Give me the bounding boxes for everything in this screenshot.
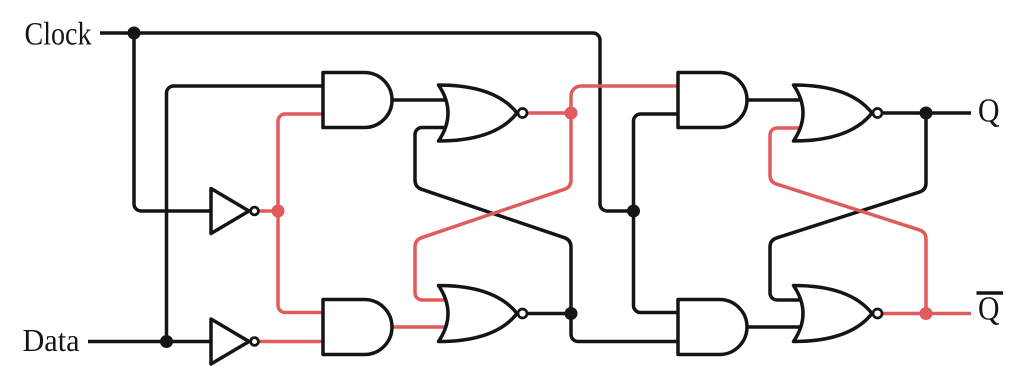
- wire A3 output to NOR G3 top input: [747, 98, 803, 102]
- wire CK node up to gate A3 bottom input: [634, 114, 683, 211]
- NOR gate G2 bubble: [518, 309, 527, 318]
- inverter U2: [211, 319, 249, 364]
- wire Clock rail: label to corner, down to CK node: [100, 33, 634, 211]
- NOR gate G4 bubble: [873, 309, 882, 318]
- junction: N2 node (G1 output): [565, 107, 578, 120]
- NOR gate G4 body: [794, 286, 873, 342]
- wire node Qbar to output Qbar: [926, 312, 971, 316]
- junction: CK node: [627, 205, 640, 218]
- inverter U1 bubble: [251, 207, 259, 215]
- wire U1 output to node N1: [255, 209, 279, 213]
- svg-text:Q: Q: [978, 291, 1000, 328]
- wire G2 output cross-coupling to G1 bottom input: [415, 128, 571, 314]
- wire G3 output to node Q: [882, 111, 926, 115]
- AND gate A3: [678, 73, 747, 128]
- wire U2 output to gate A2 bottom input: [255, 340, 328, 344]
- wire G4 output to node Qbar: [882, 312, 926, 316]
- inverter U2 bubble: [251, 338, 259, 346]
- wire G1 output to node N2: [528, 111, 571, 115]
- wire Data up-branch to gate A1 top input: [167, 86, 328, 342]
- AND gate A2: [323, 300, 392, 355]
- AND gate A4: [678, 300, 747, 355]
- wire node N1 down to gate A2 top input: [278, 211, 327, 313]
- NOR gate G3 bubble: [873, 109, 882, 118]
- junction: Data node: [160, 335, 173, 348]
- wire A1 output to NOR G1 top input: [391, 98, 448, 102]
- AND gate A1: [323, 73, 392, 128]
- junction: Clock node: [128, 27, 141, 40]
- NOR gate G3 body: [794, 85, 873, 141]
- junction: Q node: [920, 107, 933, 120]
- wire node N2 up to gate A3 top input: [571, 86, 682, 113]
- NOR gate G1 bubble: [518, 109, 527, 118]
- wire Clock down-branch to inverter U1 input: [134, 33, 215, 211]
- wire node N1 up to gate A1 bottom input: [278, 114, 327, 211]
- junction: G2 output node: [565, 307, 578, 320]
- svg-text:Data: Data: [23, 322, 80, 358]
- wire CK node down to gate A4 top input: [634, 211, 683, 313]
- wire node Q to output Q: [926, 111, 971, 115]
- svg-text:Q: Q: [978, 93, 1000, 130]
- junction: Qbar node: [920, 307, 933, 320]
- NOR gate G2 body: [439, 286, 518, 342]
- inverter U1: [211, 189, 249, 234]
- junction: N1 node (inverted clock): [272, 205, 285, 218]
- label Qbar overline: [977, 291, 1004, 295]
- svg-text:Clock: Clock: [25, 17, 92, 53]
- wire A2 output to NOR G2 bottom input: [391, 325, 448, 329]
- wire Qbar cross-coupling to NOR G3 bottom input: [770, 128, 926, 314]
- wire A4 output to NOR G4 bottom input: [747, 325, 803, 329]
- wire Q cross-coupling to NOR G4 top input: [770, 113, 926, 300]
- wire Data lead to inverter U2 input: [88, 340, 215, 344]
- wire G2 output node to gate A4 bottom input: [571, 314, 682, 342]
- NOR gate G1 body: [439, 85, 518, 141]
- wire G1 output cross-coupling to G2 top input: [415, 113, 571, 300]
